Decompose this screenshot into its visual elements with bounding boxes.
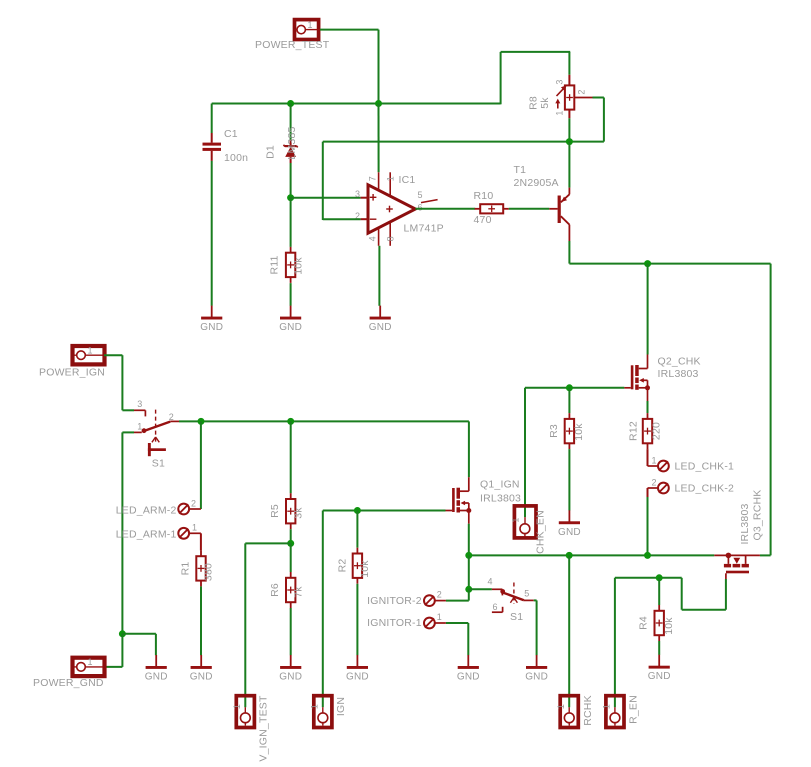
value 7k: [293, 586, 305, 598]
pin LED_CHK-1: [648, 461, 669, 472]
wire: [469, 554, 715, 556]
svg-text:1: 1: [308, 20, 313, 30]
ground: [190, 655, 213, 683]
ground: [525, 655, 548, 683]
svg-text:4: 4: [488, 576, 493, 586]
svg-text:1: 1: [310, 704, 320, 709]
svg-text:R6: R6: [269, 583, 281, 597]
wire: [534, 599, 537, 601]
svg-text:R2: R2: [336, 559, 348, 573]
svg-text:LM741P: LM741P: [404, 223, 444, 235]
wire: [121, 355, 123, 410]
junction: [465, 552, 472, 559]
svg-text:3k: 3k: [293, 507, 305, 519]
wire: [211, 161, 213, 306]
wire: [469, 588, 492, 590]
label CHK_EN: [535, 510, 547, 554]
diode D1: [284, 140, 298, 163]
svg-text:5k: 5k: [539, 97, 551, 109]
transistor Q1_IGN: [446, 477, 472, 524]
svg-text:LED_ARM-2: LED_ARM-2: [116, 505, 177, 517]
wire: [568, 241, 570, 264]
resistor R2: [353, 548, 362, 584]
value 380: [202, 563, 214, 581]
junction: [287, 194, 294, 201]
svg-text:470: 470: [474, 214, 492, 226]
resistor R3: [565, 413, 574, 449]
label POWER_GND: [33, 677, 104, 689]
pin LED_ARM-2: [178, 504, 201, 515]
svg-text:220: 220: [651, 422, 663, 440]
pin 1 label CHK_EN: [510, 517, 520, 522]
label IGNITOR-2: [367, 595, 422, 607]
pin LED_ARM-1: [178, 528, 201, 539]
transistor Q2_CHK: [624, 355, 650, 402]
pin 2 label R8: [577, 89, 587, 94]
wire: [568, 388, 570, 413]
svg-text:V_IGN_TEST: V_IGN_TEST: [258, 695, 270, 762]
value 3k: [293, 507, 305, 519]
wire: [569, 141, 604, 143]
svg-text:2: 2: [652, 478, 657, 488]
svg-text:IGNITOR-2: IGNITOR-2: [367, 595, 422, 607]
svg-text:R_EN: R_EN: [628, 695, 640, 724]
svg-text:6: 6: [418, 202, 423, 212]
potentiometer R8: [555, 75, 592, 119]
ground: [279, 655, 302, 683]
svg-text:LED_CHK-2: LED_CHK-2: [675, 483, 735, 495]
wire: [415, 208, 475, 210]
wire: [200, 533, 202, 550]
label LED_ARM-1: [116, 528, 177, 540]
value 10k: [573, 423, 585, 441]
svg-text:5: 5: [524, 588, 529, 598]
wire: [179, 420, 469, 422]
ground: [457, 655, 480, 683]
wire: [524, 388, 526, 517]
svg-text:S1: S1: [152, 458, 165, 470]
label IGN: [335, 697, 347, 716]
wire: [290, 283, 292, 306]
pin 4 label: [488, 576, 493, 586]
wire: [536, 600, 538, 655]
svg-text:1: 1: [556, 704, 566, 709]
wire: [446, 622, 468, 624]
svg-text:8: 8: [385, 236, 395, 241]
label R3: [548, 424, 560, 438]
svg-text:R10: R10: [474, 190, 494, 202]
svg-text:10k: 10k: [663, 617, 675, 635]
pin 3 label: [137, 399, 142, 409]
pin 2 label: [169, 412, 174, 422]
pin 1 label: [602, 704, 612, 709]
wire: [603, 98, 605, 142]
label C1: [224, 128, 238, 140]
value IRL3803: [739, 503, 751, 544]
value 5k: [539, 97, 551, 109]
junction: [566, 384, 573, 391]
wire: [467, 623, 469, 655]
junction: [375, 100, 382, 107]
pin 1 label: [310, 704, 320, 709]
wire: [568, 52, 570, 75]
value IRL3803: [480, 493, 521, 505]
svg-text:1: 1: [192, 523, 197, 533]
svg-text:2N2905A: 2N2905A: [514, 177, 559, 189]
wire: [501, 51, 571, 53]
pin IGNITOR-1: [424, 618, 446, 629]
wire: [468, 524, 470, 556]
svg-text:2: 2: [169, 412, 174, 422]
svg-text:2: 2: [191, 499, 196, 509]
pin 1 label: [137, 421, 142, 431]
svg-text:10k: 10k: [359, 560, 371, 578]
svg-text:2: 2: [577, 89, 587, 94]
label IGNITOR-1: [367, 617, 422, 629]
svg-text:1: 1: [232, 704, 242, 709]
pin 6 label: [493, 602, 498, 612]
value 100n: [224, 152, 248, 164]
resistor R6: [286, 572, 295, 608]
svg-text:Q2_CHK: Q2_CHK: [658, 356, 701, 368]
wire: [320, 29, 379, 31]
label R6: [269, 583, 281, 597]
wire: [291, 197, 361, 199]
connector CHK_EN: [514, 506, 536, 538]
resistor R1: [196, 550, 205, 586]
wire: [468, 421, 470, 477]
wire: [500, 52, 502, 104]
wire: [568, 118, 570, 141]
wire: [356, 511, 358, 548]
wire: [244, 543, 246, 707]
label R1: [179, 562, 191, 576]
wire: [647, 488, 649, 497]
svg-text:POWER_TEST: POWER_TEST: [255, 39, 330, 51]
svg-text:CHK_EN: CHK_EN: [535, 510, 547, 554]
junction: [566, 552, 573, 559]
resistor R12: [643, 413, 652, 449]
wire: [200, 421, 202, 509]
wire: [290, 529, 292, 543]
label LED_ARM-2: [116, 505, 177, 517]
wire: [682, 609, 726, 611]
wire: [647, 449, 649, 466]
svg-text:100n: 100n: [224, 152, 248, 164]
label POWER_TEST: [255, 39, 330, 51]
value IRL3803: [658, 368, 699, 380]
label R10: [474, 190, 494, 202]
wire: [290, 543, 292, 572]
wire: [104, 354, 122, 356]
switch S1 pole A: [134, 410, 179, 457]
svg-text:1: 1: [602, 704, 612, 709]
label D1: [265, 145, 277, 159]
pin 3 label: [355, 189, 360, 199]
wire: [593, 97, 604, 99]
wire: [468, 555, 470, 589]
svg-text:4: 4: [367, 236, 377, 241]
wire: [378, 30, 380, 104]
label S1: [152, 458, 165, 470]
junction: [644, 552, 651, 559]
resistor R4: [655, 605, 664, 641]
wire: [212, 103, 501, 105]
svg-text:1: 1: [555, 110, 565, 115]
svg-text:IRL3803: IRL3803: [739, 503, 751, 544]
pin 1 label: [88, 346, 93, 356]
value LM741P: [404, 223, 444, 235]
pin 4 label: [367, 236, 377, 241]
pin 2 label: [355, 211, 360, 221]
svg-text:Q1_IGN: Q1_IGN: [480, 479, 520, 491]
svg-text:3: 3: [555, 79, 565, 84]
connector POWER_IGN: [73, 346, 105, 364]
pin 1 label: [652, 456, 657, 466]
wire: [568, 555, 570, 707]
resistor R11: [286, 247, 295, 283]
wire: [647, 497, 649, 555]
svg-text:1: 1: [510, 517, 520, 522]
svg-text:IRL3803: IRL3803: [480, 493, 521, 505]
svg-text:IRL3803: IRL3803: [658, 368, 699, 380]
connector POWER_TEST: [294, 20, 320, 40]
resistor R5: [286, 493, 295, 529]
switch S1 pole B: [492, 583, 534, 613]
svg-text:1: 1: [385, 176, 395, 181]
wire: [290, 104, 292, 140]
value 10k: [663, 617, 675, 635]
wire: [509, 208, 550, 210]
pin 1 label: [192, 523, 197, 533]
svg-text:IGNITOR-1: IGNITOR-1: [367, 617, 422, 629]
junction: [287, 418, 294, 425]
label V_IGN_TEST: [258, 695, 270, 762]
label IC1: [399, 174, 416, 186]
svg-text:R4: R4: [638, 616, 650, 630]
wire: [104, 666, 122, 668]
junction: [198, 418, 205, 425]
pin 1 label: [232, 704, 242, 709]
svg-text:R5: R5: [269, 504, 281, 518]
wire: [290, 163, 292, 198]
svg-text:D1: D1: [265, 145, 277, 159]
wire: [122, 431, 134, 433]
value 2N2905A: [514, 177, 559, 189]
wire: [322, 511, 324, 708]
svg-text:10k: 10k: [293, 257, 305, 275]
wire: [121, 432, 123, 633]
wire: [245, 542, 290, 544]
connector RCHK: [560, 696, 578, 728]
wire: [323, 510, 446, 512]
svg-text:2: 2: [437, 590, 442, 600]
svg-text:LED_CHK-1: LED_CHK-1: [675, 460, 735, 472]
resistor R10: [475, 204, 509, 213]
wire: [569, 263, 770, 265]
label R_EN: [628, 695, 640, 724]
junction: [287, 100, 294, 107]
ground: [200, 306, 223, 334]
label Q2_CHK: [658, 356, 701, 368]
wire: [322, 142, 324, 220]
wire: [647, 264, 649, 355]
label R2: [336, 559, 348, 573]
pin 2 label: [191, 499, 196, 509]
label R4: [638, 616, 650, 630]
ground: [648, 655, 671, 683]
wire: [290, 608, 292, 655]
svg-text:1: 1: [652, 456, 657, 466]
wire: [122, 409, 134, 411]
value 10k: [293, 257, 305, 275]
ground: [369, 306, 392, 334]
wire: [378, 104, 380, 173]
value 10k: [359, 560, 371, 578]
svg-text:7: 7: [367, 176, 377, 181]
pin 5 label: [418, 190, 423, 200]
capacitor C1: [203, 104, 222, 161]
svg-text:POWER_GND: POWER_GND: [33, 677, 104, 689]
svg-text:1: 1: [88, 346, 93, 356]
wire: [290, 198, 292, 247]
svg-text:RCHK: RCHK: [582, 695, 594, 726]
svg-text:R3: R3: [548, 424, 560, 438]
wire: [647, 401, 649, 413]
wire: [446, 600, 469, 602]
junction: [644, 260, 651, 267]
svg-text:POWER_IGN: POWER_IGN: [39, 367, 105, 379]
pin 1 label: [385, 176, 395, 181]
wire: [290, 421, 292, 493]
pin 2 label: [437, 590, 442, 600]
ground: [558, 510, 581, 538]
svg-text:380: 380: [202, 563, 214, 581]
wire: [658, 641, 660, 655]
label S1: [510, 611, 523, 623]
svg-text:1: 1: [437, 612, 442, 622]
connector R_EN: [606, 696, 624, 728]
wire: [468, 589, 470, 600]
label R5: [269, 504, 281, 518]
pin 3 label R8: [555, 79, 565, 84]
label R12: [628, 421, 640, 441]
svg-text:5: 5: [418, 190, 423, 200]
svg-text:3: 3: [137, 399, 142, 409]
ground: [145, 655, 168, 683]
wire: [378, 246, 380, 306]
wire: [356, 584, 358, 656]
svg-text:S1: S1: [510, 611, 523, 623]
value 470: [474, 214, 492, 226]
wire: [121, 634, 123, 667]
svg-text:R8: R8: [528, 96, 540, 110]
pin 1 label POWER_TEST: [308, 20, 313, 30]
wire: [122, 633, 155, 635]
svg-text:6: 6: [493, 602, 498, 612]
label LED_CHK-1: [675, 460, 735, 472]
label R11: [269, 255, 281, 274]
ground: [346, 655, 369, 683]
wire: [725, 579, 727, 610]
svg-text:10k: 10k: [573, 423, 585, 441]
pin 1 label: [556, 704, 566, 709]
svg-text:C1: C1: [224, 128, 238, 140]
label RCHK: [582, 695, 594, 726]
pin 6 label: [418, 202, 423, 212]
label T1: [514, 164, 527, 176]
wire: [770, 264, 772, 556]
label LED_CHK-2: [675, 483, 735, 495]
pin LED_CHK-2: [648, 483, 669, 494]
junction: [354, 507, 361, 514]
junction: [287, 540, 294, 547]
label Q3_RCHK: [751, 490, 763, 541]
pin 7 label: [367, 176, 377, 181]
svg-text:IGN: IGN: [335, 697, 347, 716]
wire: [568, 142, 570, 188]
pin 2 label: [652, 478, 657, 488]
ground: [279, 306, 302, 334]
connector IGN: [314, 696, 332, 728]
svg-text:1: 1: [88, 657, 93, 667]
label POWER_IGN: [39, 367, 105, 379]
wire: [525, 387, 624, 389]
op-amp IC1: [361, 172, 438, 246]
svg-text:3: 3: [355, 189, 360, 199]
svg-text:Q3_RCHK: Q3_RCHK: [751, 490, 763, 541]
svg-text:LM385: LM385: [286, 126, 298, 159]
label R8: [528, 96, 540, 110]
svg-text:1: 1: [137, 421, 142, 431]
transistor T1: [549, 188, 569, 241]
wire: [614, 578, 616, 707]
svg-text:7k: 7k: [293, 586, 305, 598]
pin 1 label: [437, 612, 442, 622]
svg-text:IC1: IC1: [399, 174, 416, 186]
connector V_IGN_TEST: [236, 696, 254, 728]
svg-text:R11: R11: [269, 255, 281, 274]
label Q1_IGN: [480, 479, 520, 491]
junction: [465, 586, 472, 593]
wire: [760, 554, 771, 556]
junction: [566, 138, 573, 145]
transistor Q3_RCHK: [714, 553, 760, 579]
wire: [568, 449, 570, 510]
wire: [615, 577, 682, 579]
pin 1 label R8: [555, 110, 565, 115]
wire: [658, 578, 660, 605]
svg-text:LED_ARM-1: LED_ARM-1: [116, 528, 177, 540]
wire: [323, 141, 570, 143]
pin IGNITOR-2: [424, 595, 446, 606]
pin 8 label: [385, 236, 395, 241]
svg-text:T1: T1: [514, 164, 527, 176]
wire: [200, 586, 202, 655]
value 220: [651, 422, 663, 440]
wire: [681, 578, 683, 610]
junction: [656, 574, 663, 581]
wire: [155, 634, 157, 655]
wire: [323, 218, 361, 220]
connector POWER_GND: [73, 658, 105, 676]
svg-text:R12: R12: [628, 421, 640, 441]
svg-text:R1: R1: [179, 562, 191, 576]
pin 5 label: [524, 588, 529, 598]
value LM385: [286, 126, 298, 159]
junction: [119, 630, 126, 637]
pin 1 label: [88, 657, 93, 667]
